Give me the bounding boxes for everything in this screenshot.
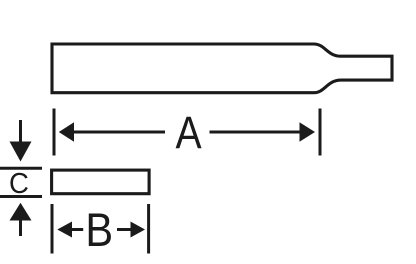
dimension C lower extension line: [0, 195, 42, 198]
file blade profile outline (dimension A object): [52, 44, 392, 93]
dimension A left tick: [53, 109, 56, 156]
dimension A label: [176, 107, 203, 157]
dimension C down-arrow shaft: [19, 120, 22, 144]
svg-text:C: C: [9, 166, 29, 199]
dimension B left tick: [51, 204, 54, 254]
svg-text:A: A: [176, 107, 203, 157]
dimension B label: [85, 205, 113, 257]
dimension A right tick: [319, 109, 322, 156]
dimension C down-arrow head: [10, 142, 32, 162]
dimension A left arrow: [59, 122, 74, 141]
dimension C up-arrow shaft: [19, 219, 22, 236]
dimension B left arrow: [57, 222, 72, 238]
dimension C label: [9, 166, 29, 199]
dimension B right arrow: [117, 228, 132, 231]
dimension A right arrow: [210, 131, 301, 134]
dimension B right tick: [147, 204, 150, 254]
dimension C upper extension line: [0, 167, 42, 170]
file cross-section rectangle (dimension B/C object): [52, 170, 150, 194]
svg-text:B: B: [85, 205, 113, 257]
dimension C up-arrow head: [10, 203, 32, 221]
